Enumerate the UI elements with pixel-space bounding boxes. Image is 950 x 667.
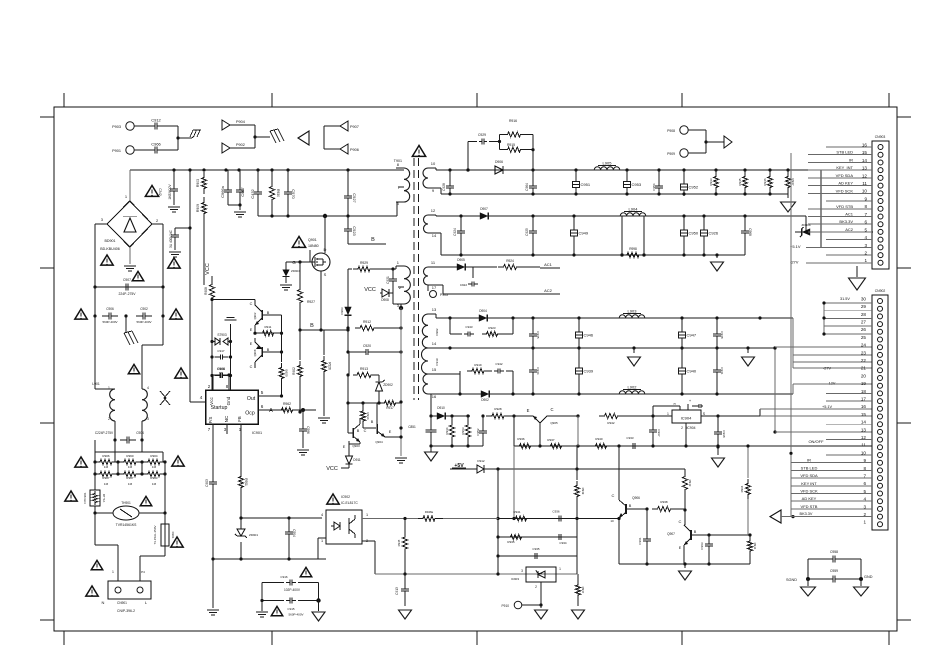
warning triangle [271,606,282,615]
capacitor C948 [716,318,718,330]
wire 31.5V block [823,303,825,334]
svg-text:14: 14 [432,341,437,346]
svg-text:1M: 1M [128,465,133,469]
svg-text:D907: D907 [480,207,488,211]
svg-text:STB LED: STB LED [801,465,818,470]
resistor R940 [591,443,611,448]
resistor R902 [299,330,301,360]
svg-text:R937: R937 [547,438,555,442]
svg-text:D905: D905 [457,258,465,262]
svg-text:R933: R933 [709,178,713,186]
opto IC902 [326,510,362,544]
svg-text:R942: R942 [607,421,615,425]
svg-text:D902: D902 [481,398,489,402]
svg-text:20: 20 [861,373,867,378]
svg-text:F901: F901 [171,532,175,539]
svg-text:C959: C959 [830,569,838,573]
capacitor C935 [528,555,535,557]
svg-text:GND: GND [864,575,873,579]
wire [114,440,116,462]
wire [94,474,96,490]
svg-text:IC904: IC904 [681,416,692,421]
resistor R936 [515,443,535,448]
transistor Q903 [347,375,349,433]
svg-text:E: E [343,445,346,449]
svg-text:16: 16 [432,394,437,399]
inductor L902 [619,391,645,394]
svg-text:B: B [629,504,632,508]
zener ZD902 [375,374,379,376]
svg-text:3U 400V NC: 3U 400V NC [169,229,173,248]
svg-text:VFD STB: VFD STB [836,204,853,209]
svg-text:Q902: Q902 [253,312,257,319]
resistor R905 [201,172,206,194]
svg-text:1: 1 [863,520,866,525]
capacitor C922b [472,267,474,278]
svg-text:560P-400V: 560P-400V [102,320,117,324]
ground [633,348,635,353]
svg-text:22: 22 [861,358,867,363]
ground [239,211,241,213]
svg-text:12: 12 [431,208,436,213]
resistor R926 [323,330,325,355]
svg-text:3: 3 [147,417,149,421]
svg-text:Out: Out [247,396,256,402]
svg-text:N: N [102,600,105,605]
wire +5V rail [498,468,685,470]
svg-text:R914: R914 [366,412,370,420]
svg-text:CN901: CN901 [117,601,127,605]
svg-text:AD KEY: AD KEY [838,181,853,186]
wire rail A to +5.1V [788,169,821,171]
svg-text:-27V: -27V [823,366,831,370]
svg-text:D908: D908 [381,298,389,302]
connector P904 [222,120,230,130]
svg-text:R962: R962 [283,402,291,406]
svg-text:VCC: VCC [205,263,211,275]
connector P906 [324,148,340,150]
resistor R946 [769,170,771,172]
svg-text:Q903: Q903 [352,444,360,448]
svg-text:C944: C944 [536,367,540,375]
svg-text:560P-400V: 560P-400V [136,320,151,324]
svg-text:C: C [250,302,253,306]
svg-text:R907: R907 [102,476,110,480]
svg-text:11: 11 [861,443,866,448]
resistor R963b [465,419,470,443]
svg-text:STB LED: STB LED [836,150,853,155]
svg-text:C903: C903 [205,479,209,487]
ground [230,324,232,342]
svg-text:2: 2 [208,384,211,389]
capacitor C946 [578,318,580,328]
wire opto out [362,518,420,520]
capacitor C432 [257,186,259,192]
svg-text:S7903: S7903 [217,333,226,337]
svg-text:R940: R940 [595,437,603,441]
wire rail 16 [435,393,437,395]
diode D912 [474,468,477,470]
svg-text:C904: C904 [136,431,144,435]
svg-text:2: 2 [108,417,110,421]
wire [203,219,205,285]
ic IC904 [672,410,701,423]
svg-text:P908: P908 [667,129,675,133]
svg-text:C909: C909 [217,367,225,371]
wire rail B [435,215,437,216]
svg-text:D910: D910 [437,406,445,410]
svg-text:1: 1 [125,194,128,199]
svg-text:21: 21 [861,366,867,371]
zener ZD901 [240,518,242,529]
svg-text:C919: C919 [435,358,439,366]
wire [211,276,213,281]
svg-text:ON/OFF: ON/OFF [808,439,824,444]
svg-text:R923: R923 [488,326,496,330]
wire [347,269,349,303]
fuse F901 [164,490,166,513]
resistor R948 [418,516,440,521]
svg-text:P901: P901 [112,149,121,153]
svg-text:D906: D906 [495,160,503,164]
svg-text:28: 28 [861,312,867,317]
svg-text:BD901: BD901 [105,239,116,243]
svg-text:11: 11 [431,260,436,265]
capacitor C951 [575,170,577,180]
svg-text:C943: C943 [465,325,473,329]
capacitor C934 [552,536,559,538]
connector arrow [724,136,732,148]
transformer core [413,158,415,400]
svg-text:CN2: CN2 [158,188,162,196]
wire [431,445,483,447]
wire pin3 [653,405,680,407]
svg-text:26: 26 [861,327,867,332]
svg-text:ZD901: ZD901 [249,533,258,537]
wire [392,302,394,304]
resistor R941 [511,516,531,521]
svg-text:C939: C939 [584,369,594,374]
svg-text:P904: P904 [236,120,245,124]
resistor R928 [486,413,510,418]
svg-text:B: B [267,348,270,352]
svg-text:NC: NC [224,415,229,422]
transformer secondary 11-17 [424,267,429,285]
svg-text:P903: P903 [112,125,121,129]
ground [684,564,686,568]
resistor R924 [498,264,522,269]
svg-text:BD-KBU406: BD-KBU406 [100,247,120,251]
svg-text:L904: L904 [629,207,639,212]
svg-text:C926: C926 [709,231,719,236]
svg-text:4: 4 [321,513,323,517]
svg-text:ZD908: ZD908 [801,223,810,227]
resistor R917 [380,400,400,405]
ground [261,601,263,612]
mosfet Q901 [312,253,330,271]
svg-text:RT 5A: RT 5A [102,494,106,502]
svg-text:R937: R937 [581,587,585,594]
svg-text:8: 8 [226,384,229,389]
connector P908 [680,126,688,134]
svg-text:CN903: CN903 [875,135,886,139]
svg-text:R998: R998 [629,247,637,251]
svg-text:1: 1 [397,260,400,265]
svg-text:C946: C946 [584,333,594,338]
svg-text:C968: C968 [748,228,752,236]
svg-text:KEY_INT: KEY_INT [836,165,853,170]
transformer secondary 10-9 [423,168,428,188]
svg-text:CNIP-396-2: CNIP-396-2 [117,609,135,613]
warning triangle [168,258,180,268]
svg-text:A: A [269,408,273,414]
wire [323,126,325,149]
svg-text:31.5V: 31.5V [840,297,850,301]
warning triangle [172,456,184,466]
wire [94,287,96,316]
svg-text:15: 15 [861,412,867,417]
diode D905 [436,266,450,268]
svg-text:P910: P910 [502,604,510,608]
svg-text:IC901: IC901 [252,431,262,435]
svg-text:NTC901: NTC901 [83,492,87,504]
resistor R913 [346,373,349,376]
wire rows 25-22 [775,346,872,348]
svg-text:C967: C967 [240,186,245,196]
svg-text:Ocp: Ocp [245,411,255,417]
diode D907 [473,215,480,217]
svg-text:R901: R901 [244,478,248,486]
wire rail 14 [436,347,775,349]
svg-text:S: S [324,272,327,277]
svg-text:C936: C936 [552,510,560,514]
svg-text:R935: R935 [507,540,515,544]
capacitor C961 [646,533,648,539]
node B2 [300,329,348,331]
svg-text:P909: P909 [667,152,675,156]
svg-text:Gnd: Gnd [226,396,231,405]
diode D906 [488,169,495,171]
capacitor C937 [652,416,654,426]
snubber R919 C942 [436,373,460,375]
svg-text:2: 2 [535,585,537,589]
capacitor C904b [288,526,290,532]
svg-text:R902: R902 [292,367,296,375]
warning triangle [132,271,143,280]
capacitor C941 [716,348,718,366]
wire main bus [130,169,404,171]
svg-text:C923: C923 [352,226,357,236]
warning triangle [75,309,87,319]
svg-text:1: 1 [559,567,561,571]
ground [856,266,858,277]
diode D904 [472,317,479,319]
resistor R901 [240,470,242,472]
svg-text:1: 1 [321,539,323,543]
resistor R945 [744,170,746,172]
wire rail14 right [774,348,776,432]
svg-text:3: 3 [101,217,104,222]
svg-text:C917: C917 [217,349,225,353]
svg-text:C921: C921 [386,276,390,284]
transformer T901 primary winding 1-2-3 [404,266,410,304]
svg-text:D904: D904 [479,309,487,313]
svg-text:1M: 1M [104,482,109,486]
resistor R944 [747,537,752,555]
wire [241,517,322,519]
svg-text:R938: R938 [660,500,668,504]
svg-text:C961: C961 [638,537,642,545]
inductor L905 [594,167,620,170]
warning triangle Q901 [292,236,305,247]
wire vert 230 [230,342,232,391]
warning triangle CN2 [145,185,158,196]
wire [94,506,96,513]
capacitor C903 3U 400V NC [175,227,190,229]
svg-text:25: 25 [861,335,867,340]
warning triangle [300,567,311,576]
svg-text:B: B [371,420,374,424]
svg-text:9: 9 [432,188,435,193]
svg-text:R936: R936 [517,437,525,441]
wire bus2 left [258,215,325,217]
ground [787,194,789,198]
svg-text:P4: P4 [141,570,145,574]
transistor Q902 [261,310,263,320]
svg-text:E: E [389,430,392,434]
transformer secondary 13-14-15-16 [422,314,428,348]
diode D911 [348,441,350,456]
svg-text:+5.1V: +5.1V [790,244,801,249]
wire base Q906 [626,508,647,510]
wire [450,468,474,470]
wire [540,582,542,605]
capacitor C947 [681,318,683,328]
svg-text:1M: 1M [104,465,109,469]
capacitor C924 [460,216,462,227]
capacitor C923 [347,216,349,224]
svg-text:R904: R904 [150,454,158,458]
capacitor C925 [532,216,534,227]
ground [717,447,719,455]
wire [705,130,707,153]
capacitor C902 [136,315,143,317]
capacitor C954b [687,404,689,410]
svg-text:R915: R915 [507,143,515,147]
svg-text:C906: C906 [106,307,114,311]
wire [129,170,131,201]
wire [347,328,349,352]
svg-text:C925: C925 [525,228,529,236]
vertical 497.7 [497,469,499,556]
capacitor C966a [227,184,229,190]
capacitor C954 [658,170,660,182]
svg-text:C934: C934 [559,541,567,545]
svg-text:C: C [550,407,553,412]
svg-text:R945: R945 [738,178,742,186]
connector P903 [126,122,134,130]
warning triangle [101,255,113,265]
capacitor C916 [262,582,284,584]
svg-text:C954: C954 [652,183,656,191]
ground [129,247,131,264]
svg-text:AC2: AC2 [544,288,553,293]
svg-text:30: 30 [861,296,867,301]
arrow left CN902 [770,510,781,523]
inductor L903 [619,315,645,318]
svg-text:Q906: Q906 [632,496,640,500]
svg-text:VFD SDA: VFD SDA [800,473,818,478]
warning triangle [75,457,87,467]
svg-text:C: C [250,365,253,369]
ground [716,255,718,258]
zener ZD904 [286,261,310,263]
svg-text:224P-275V: 224P-275V [119,292,137,296]
svg-text:ZD904: ZD904 [291,269,300,273]
wire 12V [792,384,794,394]
svg-text:13: 13 [861,427,867,432]
svg-text:+5.1V: +5.1V [822,405,832,409]
capacitor C964 [532,170,534,182]
svg-text:S: S [703,412,706,416]
warning triangle [91,560,102,569]
svg-text:L905: L905 [603,161,613,166]
wire [261,583,263,601]
svg-text:C920: C920 [363,344,371,348]
svg-text:Q905: Q905 [550,421,558,425]
svg-text:2: 2 [156,218,159,223]
vertical [497,556,499,574]
warning triangle [140,496,151,505]
svg-text:P906: P906 [350,148,359,152]
inlet CN901 [108,581,151,599]
wire rail 13 [435,314,437,318]
ground [540,605,542,608]
svg-text:17: 17 [432,285,437,290]
svg-text:102P-400V: 102P-400V [284,588,301,592]
svg-text:C953: C953 [632,182,642,187]
svg-text:C950: C950 [689,231,699,236]
svg-text:T3.15AL 250V: T3.15AL 250V [153,525,157,544]
svg-text:C942: C942 [495,362,503,366]
svg-text:VFD SCK: VFD SCK [836,188,854,193]
svg-text:R926: R926 [328,362,332,370]
resistor R933 [715,170,717,172]
resistor R938 [652,506,676,511]
capacitor C952 [683,170,685,180]
svg-text:5: 5 [261,390,264,395]
capacitor C927 [347,170,349,191]
svg-text:24: 24 [861,343,867,348]
wire AC2 [436,284,443,286]
vertical 577 [577,416,579,446]
resistor R962 [277,407,297,412]
capacitor C909 [214,375,220,377]
svg-text:1KE/400V: 1KE/400V [168,184,172,200]
resistor R998 [622,252,644,257]
warning triangle [65,491,77,501]
resistor R964 [747,446,749,478]
resistor R942 [599,413,623,418]
capacitor C933 [626,445,633,447]
capacitor C912 [134,125,149,127]
svg-text:AC1: AC1 [544,262,553,267]
capacitor C967 [239,184,241,190]
svg-text:7: 7 [208,427,211,432]
svg-text:Vcc: Vcc [209,396,214,404]
capacitor C926 [703,216,705,226]
capacitor C928 [449,170,451,182]
